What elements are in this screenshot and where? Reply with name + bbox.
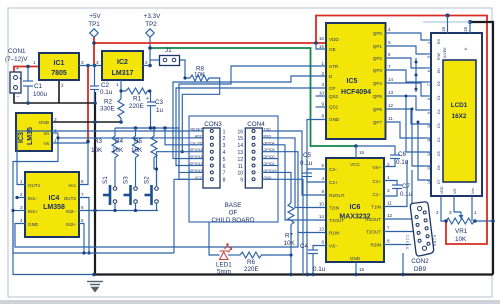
svg-text:QP5: QP5 [373, 94, 383, 99]
svg-text:VDD: VDD [440, 186, 444, 194]
wire IC5 GND down [307, 120, 326, 275]
svg-text:R5: R5 [134, 138, 143, 145]
svg-text:16: 16 [319, 36, 325, 41]
svg-text:10K: 10K [455, 236, 467, 243]
svg-text:0.1u: 0.1u [313, 266, 326, 273]
svg-text:D2: D2 [437, 109, 441, 114]
svg-text:10K: 10K [112, 147, 124, 154]
svg-text:2: 2 [61, 83, 64, 88]
svg-text:OE: OE [329, 47, 336, 52]
svg-text:−: − [17, 94, 20, 100]
svg-text:OUT2: OUT2 [64, 196, 77, 201]
potentiometer VR1 10K [446, 218, 474, 224]
svg-text:EN: EN [437, 68, 441, 73]
svg-text:R7: R7 [285, 233, 294, 240]
svg-text:2: 2 [223, 136, 226, 142]
wire QP3 to LCD [386, 70, 426, 82]
svg-text:9: 9 [321, 189, 324, 194]
svg-text:C2+: C2+ [329, 180, 338, 185]
svg-text:T1OUT: T1OUT [329, 218, 344, 223]
svg-text:VO: VO [453, 189, 457, 194]
wire QP5 to LCD [386, 96, 426, 110]
svg-text:4: 4 [20, 218, 23, 223]
svg-text:R1IN: R1IN [329, 231, 339, 236]
svg-text:16: 16 [359, 150, 365, 155]
svg-text:C2: C2 [101, 82, 110, 89]
svg-text:1: 1 [33, 60, 36, 65]
wire QP7 to LCD [386, 122, 426, 138]
svg-text:16: 16 [237, 129, 243, 135]
capacitor C7 [384, 181, 397, 186]
svg-text:16X2: 16X2 [452, 113, 467, 120]
node +5V junctions [92, 41, 96, 45]
wire QP6 to LCD [386, 109, 426, 124]
wire LED to R6 [228, 254, 240, 256]
svg-text:330E: 330E [100, 106, 115, 113]
svg-text:R2IN: R2IN [371, 243, 381, 248]
svg-text:1: 1 [54, 138, 57, 143]
wire ground right vertical [470, 22, 493, 275]
wire CON4 stubs [262, 130, 278, 132]
svg-text:13: 13 [237, 150, 243, 156]
wire IC4 IN1- loop [17, 197, 25, 199]
svg-text:IC6: IC6 [350, 204, 361, 211]
svg-text:VS+: VS+ [372, 165, 381, 170]
wire ground vertical [94, 92, 96, 275]
svg-text:VCC: VCC [350, 162, 360, 167]
capacitor C1 [27, 67, 29, 82]
svg-text:13: 13 [388, 90, 394, 95]
wire R6 to R7 node [265, 254, 291, 256]
svg-text:1: 1 [223, 129, 226, 135]
svg-text:11: 11 [238, 164, 243, 170]
svg-text:CP: CP [329, 86, 335, 91]
svg-text:D4: D4 [437, 137, 441, 142]
wire lcd d6 [412, 109, 425, 166]
IC3 LM35 [16, 113, 52, 151]
svg-text:9 8 7 6: 9 8 7 6 [433, 235, 437, 246]
svg-text:QP1: QP1 [373, 44, 383, 49]
svg-text:15: 15 [237, 136, 243, 142]
resistor R8 10K [190, 75, 213, 81]
resistor R3 10K [114, 128, 116, 136]
wire R2IN to DB9 [384, 244, 411, 246]
wire T2OUT to DB9 [384, 231, 414, 233]
wire OE tie [316, 43, 326, 49]
svg-text:8: 8 [223, 178, 226, 184]
wire pale top [423, 21, 470, 23]
wire IC6 VCC [355, 146, 357, 158]
svg-text:+5V: +5V [89, 13, 101, 20]
wire +5V to IC4 Vcc [79, 143, 88, 185]
capacitor C5 [307, 169, 326, 173]
svg-text:RS: RS [437, 38, 441, 44]
svg-text:QP2: QP2 [373, 56, 383, 61]
svg-text:2: 2 [321, 71, 324, 76]
capacitor C2 [94, 66, 96, 87]
svg-text:S1: S1 [102, 176, 109, 184]
svg-text:2: 2 [20, 192, 23, 197]
svg-text:9: 9 [240, 178, 243, 184]
wire +5V drop to IC3/IC4 [87, 66, 89, 142]
svg-text:1: 1 [321, 61, 324, 66]
capacitor C4 [313, 246, 326, 251]
svg-text:LM35: LM35 [27, 127, 34, 145]
connector CON3 [203, 128, 220, 188]
wire QP2 to LCD [386, 58, 426, 68]
wire IC1 pin2 ground [58, 80, 60, 103]
svg-text:IC5: IC5 [347, 78, 358, 85]
svg-text:D3: D3 [437, 123, 441, 128]
svg-text:1: 1 [116, 82, 119, 87]
wire STR bundle to GPIO13 [179, 66, 326, 172]
svg-text:5 4 3 2 1: 5 4 3 2 1 [406, 235, 410, 249]
node qp junctions [415, 61, 418, 64]
svg-text:QS1: QS1 [329, 105, 339, 110]
svg-text:10K: 10K [194, 72, 206, 79]
svg-text:T1IN: T1IN [371, 205, 381, 210]
svg-text:C7: C7 [402, 183, 411, 190]
svg-text:14: 14 [427, 180, 431, 184]
svg-text:9: 9 [427, 112, 431, 114]
svg-text:S2: S2 [144, 176, 151, 184]
svg-text:0.1u: 0.1u [300, 160, 313, 167]
svg-text:4: 4 [223, 150, 226, 156]
svg-text:1: 1 [387, 175, 390, 180]
wire GPIO4 to T1OUT [278, 145, 326, 220]
svg-text:QP0: QP0 [373, 31, 383, 36]
svg-text:GND: GND [329, 117, 340, 122]
svg-text:C2−: C2− [329, 167, 338, 172]
base of child board box [189, 116, 278, 222]
svg-text:TP1: TP1 [88, 21, 100, 28]
svg-text:12: 12 [237, 157, 243, 163]
svg-text:8: 8 [427, 98, 431, 100]
resistor R4 10K [135, 128, 137, 136]
IC1 7805 [39, 53, 79, 80]
wire QP1 to LCD [386, 46, 426, 54]
svg-text:4: 4 [427, 42, 431, 44]
resistor R2 330E [120, 91, 122, 99]
wire IC4 GND to bottom [15, 224, 298, 248]
IC2 LM317 [102, 51, 143, 80]
svg-text:+: + [19, 76, 22, 82]
svg-text:7: 7 [81, 192, 84, 197]
svg-text:8: 8 [387, 239, 390, 244]
svg-text:LM358: LM358 [43, 204, 65, 211]
wire +5V red rail [94, 16, 487, 245]
svg-text:GND: GND [350, 256, 361, 261]
svg-text:12: 12 [387, 213, 393, 218]
svg-text:IN1−: IN1− [28, 196, 38, 201]
svg-text:D0: D0 [437, 81, 441, 86]
svg-text:R2OUT: R2OUT [329, 193, 345, 198]
wire IC4 IN2+ [79, 224, 84, 254]
svg-text:OF: OF [229, 210, 238, 217]
wire D bundle to GPIO14 [173, 76, 326, 159]
svg-text:C1−: C1− [372, 192, 381, 197]
svg-text:11: 11 [388, 116, 393, 121]
wire lcd vo down [454, 196, 461, 212]
svg-text:R1OUT: R1OUT [365, 217, 381, 222]
svg-text:Vcc: Vcc [68, 183, 76, 188]
svg-text:220E: 220E [244, 266, 259, 273]
resistor R1 220E [126, 88, 152, 94]
svg-text:11: 11 [427, 138, 431, 142]
svg-text:10K: 10K [284, 240, 296, 247]
svg-text:0.1u: 0.1u [400, 191, 413, 198]
IC5 HCF4094 [326, 23, 386, 139]
svg-text:STR: STR [329, 64, 339, 69]
svg-text:10: 10 [319, 91, 325, 96]
node rail 3.3V [115, 128, 189, 179]
svg-text:7805: 7805 [51, 70, 67, 77]
svg-text:15: 15 [319, 44, 325, 49]
svg-text:T2IN: T2IN [329, 206, 339, 211]
wire lcd vdd down [441, 196, 446, 221]
svg-text:3: 3 [54, 117, 57, 122]
svg-text:Vo: Vo [44, 131, 50, 136]
svg-text:10K: 10K [131, 147, 143, 154]
svg-text:3: 3 [20, 205, 23, 210]
svg-text:15: 15 [359, 267, 365, 272]
svg-text:BASE: BASE [225, 202, 242, 209]
connector CON4 [245, 128, 262, 188]
svg-text:TP2: TP2 [145, 21, 157, 28]
svg-text:+: + [146, 96, 149, 102]
svg-text:3: 3 [449, 210, 452, 215]
wire J1 to R8 [180, 60, 190, 78]
svg-text:6: 6 [427, 70, 431, 72]
ground symbol [87, 282, 103, 292]
svg-text:13: 13 [427, 166, 431, 170]
svg-text:IN2−: IN2− [66, 209, 76, 214]
svg-text:IC2: IC2 [117, 59, 128, 66]
wire ground bus bottom [94, 273, 493, 275]
wire lcd pin16 [469, 22, 471, 33]
svg-text:3: 3 [81, 60, 84, 65]
svg-text:QP3: QP3 [373, 68, 383, 73]
svg-text:LM317: LM317 [112, 70, 134, 77]
svg-text:(7–12)V: (7–12)V [5, 56, 28, 63]
svg-text:16: 16 [463, 26, 468, 32]
lcd bottom labels [440, 186, 475, 194]
wire CON3 stubs [189, 130, 203, 132]
svg-text:10: 10 [319, 202, 325, 207]
wire QP4 to LCD [386, 83, 426, 96]
wire QS1 stub [316, 106, 327, 108]
svg-text:10: 10 [427, 124, 431, 128]
svg-text:IC1: IC1 [54, 60, 65, 67]
resistor R5 10K [153, 128, 155, 136]
svg-text:Vss: Vss [471, 188, 475, 194]
svg-text:C1+: C1+ [372, 179, 381, 184]
lcd left pin stubs [425, 40, 431, 180]
wire QS2 stub [316, 95, 327, 97]
svg-text:VR1: VR1 [455, 228, 468, 235]
resistor R7 10K [288, 203, 294, 225]
svg-text:VS−: VS− [329, 244, 338, 249]
wire T1IN up [384, 160, 407, 207]
connector CON1 [10, 72, 21, 93]
wire CP bundle to GPIO12 [176, 88, 326, 166]
svg-text:220E: 220E [129, 103, 144, 110]
svg-text:+: + [16, 66, 19, 72]
wire GND row to bus [278, 179, 303, 274]
wire GPIO5 to R1IN [278, 152, 326, 233]
svg-text:C1: C1 [34, 83, 43, 90]
svg-text:3: 3 [387, 188, 390, 193]
svg-text:QS2: QS2 [329, 94, 339, 99]
svg-text:C3: C3 [155, 99, 164, 106]
wire GPIO15 to R7 [278, 172, 291, 203]
wire CON1 plus to IC1 [14, 67, 39, 73]
svg-text:3: 3 [96, 60, 99, 65]
switch S3 [124, 185, 138, 205]
wire lcd d5 [406, 96, 425, 152]
svg-text:9: 9 [321, 102, 324, 107]
wire IC3 gnd black [52, 121, 121, 123]
wire TP2 drop under [149, 37, 151, 66]
svg-text:OUT1: OUT1 [28, 183, 41, 188]
svg-text:R/W: R/W [437, 52, 441, 60]
svg-text:5: 5 [81, 218, 84, 223]
svg-text:R6: R6 [247, 259, 256, 266]
wire IC2 adj [121, 80, 126, 91]
wire IC3 Vo to ADC [58, 137, 189, 139]
svg-text:DB9: DB9 [414, 266, 427, 273]
svg-text:D6: D6 [437, 165, 441, 170]
wire vr1 to ground [475, 220, 493, 222]
svg-text:14: 14 [388, 77, 394, 82]
wire IC1 out to IC2 in [79, 65, 102, 67]
svg-text:5mm: 5mm [217, 269, 231, 276]
svg-text:3: 3 [223, 143, 226, 149]
svg-text:GND: GND [28, 222, 39, 227]
svg-text:S3: S3 [123, 176, 130, 184]
svg-text:11: 11 [387, 201, 392, 206]
svg-text:VDD: VDD [329, 37, 339, 42]
wire lcd vss down [471, 196, 473, 221]
svg-text:Vs: Vs [44, 141, 50, 146]
svg-text:14: 14 [319, 214, 325, 219]
connector J1 [160, 56, 180, 66]
svg-text:5: 5 [427, 56, 431, 58]
svg-text:LED1: LED1 [216, 262, 232, 269]
svg-text:4: 4 [388, 27, 391, 32]
wire RXD down [278, 138, 326, 208]
wire CH_PD pullup [165, 128, 189, 145]
wire IC4 OUT2 feedback [79, 198, 89, 254]
svg-text:C5: C5 [303, 152, 312, 159]
svg-text:5: 5 [321, 163, 324, 168]
svg-text:6: 6 [321, 240, 324, 245]
svg-text:6: 6 [388, 52, 391, 57]
wire TXD down [278, 131, 326, 195]
svg-text:7: 7 [427, 84, 431, 86]
svg-text:12: 12 [388, 103, 394, 108]
wire IC3 Vs to +5V [52, 142, 88, 144]
svg-text:D1: D1 [437, 95, 441, 100]
svg-text:CON2: CON2 [411, 258, 429, 265]
svg-text:CHILD BOARD: CHILD BOARD [211, 217, 254, 224]
svg-text:12: 12 [427, 152, 431, 156]
capacitor C6 [356, 146, 395, 155]
wire R8 to STR [182, 78, 219, 152]
svg-text:T2OUT: T2OUT [366, 230, 381, 235]
svg-text:5: 5 [388, 40, 391, 45]
svg-text:15: 15 [441, 26, 446, 32]
svg-text:2: 2 [436, 210, 439, 215]
resistor R6 220E [240, 252, 266, 258]
wire IC4 OUT1 to RESET row [17, 131, 189, 185]
test point TP1 [90, 29, 98, 37]
svg-text:1u: 1u [156, 107, 164, 114]
svg-text:14: 14 [237, 143, 243, 149]
svg-text:IN2+: IN2+ [66, 222, 76, 227]
svg-text:D7: D7 [437, 179, 441, 184]
svg-text:A/VEE: A/VEE [443, 47, 447, 58]
svg-text:100u: 100u [33, 91, 48, 98]
svg-text:QP4: QP4 [373, 81, 383, 86]
svg-text:R2: R2 [104, 99, 113, 106]
LCD1 16X2 [431, 33, 482, 196]
switch S2 [145, 185, 159, 205]
svg-text:R4: R4 [115, 138, 124, 145]
svg-text:LCD1: LCD1 [451, 102, 468, 109]
capacitor C3 [150, 91, 152, 102]
svg-text:CON1: CON1 [8, 48, 26, 55]
svg-text:7: 7 [388, 64, 391, 69]
LED1 [220, 244, 232, 260]
wire IC4 IN2- to switch rail [79, 210, 158, 212]
svg-text:6: 6 [81, 205, 84, 210]
svg-text:D5: D5 [437, 151, 441, 156]
test point TP2 [146, 29, 154, 37]
svg-text:QP7: QP7 [373, 120, 383, 125]
svg-text:HCF4094: HCF4094 [341, 89, 371, 96]
svg-text:GND: GND [39, 120, 50, 125]
svg-text:J1: J1 [165, 47, 172, 54]
svg-text:CON3: CON3 [204, 121, 222, 128]
svg-text:1: 1 [20, 179, 23, 184]
svg-text:7: 7 [387, 226, 390, 231]
svg-text:1: 1 [474, 210, 477, 215]
wire IC4 IN1+ [13, 210, 25, 212]
svg-text:R3: R3 [94, 138, 103, 145]
wire LED feed [209, 222, 220, 255]
svg-text:8: 8 [321, 114, 324, 119]
wire DB9 ground [402, 253, 404, 275]
IC6 MAX3232 [326, 158, 384, 262]
svg-text:+3.3V: +3.3V [144, 13, 161, 20]
svg-text:C6: C6 [398, 151, 407, 158]
wire IC2 out to J1 [143, 65, 150, 67]
wire lcd d7 [418, 122, 425, 180]
svg-text:10: 10 [237, 171, 243, 177]
wire loop L2 [13, 211, 94, 275]
IC4 LM358 [25, 172, 79, 237]
svg-text:10K: 10K [91, 147, 103, 154]
svg-text:0.1u: 0.1u [100, 89, 113, 96]
wire QP0 to LCD [386, 33, 426, 40]
svg-text:5: 5 [223, 157, 226, 163]
connector CON2 DB9 [410, 201, 434, 256]
wire GPIO16 to S2 [157, 152, 190, 186]
wire +3.3V green rail [150, 48, 356, 146]
svg-text:IC3: IC3 [18, 132, 25, 143]
svg-text:6: 6 [223, 164, 226, 170]
